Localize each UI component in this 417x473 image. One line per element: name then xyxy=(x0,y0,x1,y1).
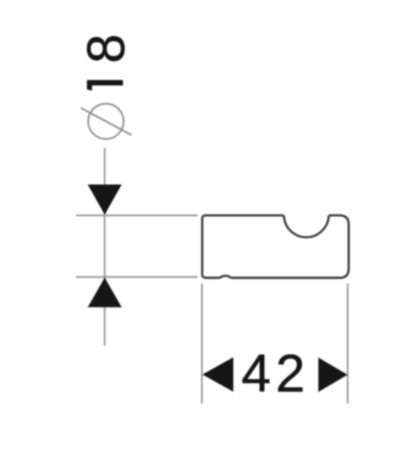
svg-text:8: 8 xyxy=(77,34,136,63)
svg-text:4: 4 xyxy=(241,345,270,404)
svg-text:2: 2 xyxy=(276,345,305,404)
